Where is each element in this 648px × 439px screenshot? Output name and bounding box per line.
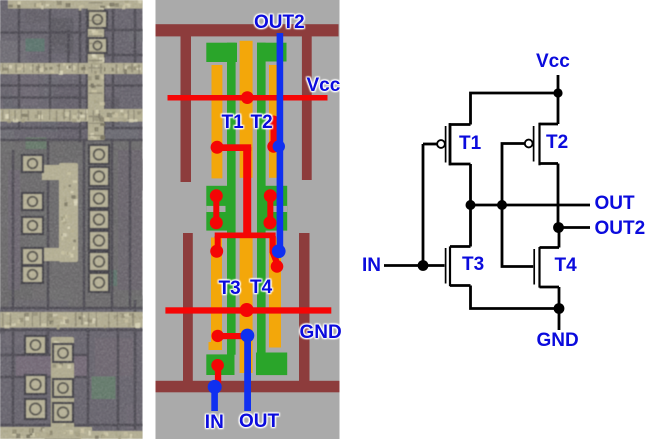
metal cross wire (center): [215, 233, 276, 239]
poly gate column right (T2/T4 gate), upper: [269, 65, 281, 178]
wire T4 source down to GND: [558, 287, 561, 309]
Vcc guard-ring top rail (p+ guard): [156, 24, 339, 36]
wire T4 gate line (OUT node down to T4 gate): [502, 205, 533, 267]
metal wire T1 gate to center poly: [217, 144, 251, 232]
IN contact dot A and bar to OUT tap: [212, 330, 248, 342]
contact pad column left: [0, 0, 1, 1]
transistor label T2 (layout): [251, 113, 273, 132]
bright metal bus bands: [0, 0, 144, 439]
transistor label T3 (schematic): [462, 255, 484, 274]
net label IN (layout): [205, 413, 224, 432]
Vcc contact junction dot: [241, 91, 254, 104]
T2 drain contact dot and stub: [267, 116, 279, 153]
active area: T3 drain diffusion (bottom-left block): [206, 354, 234, 375]
active area: mid-left diffusion block: [206, 186, 235, 231]
metal GND wire: [165, 307, 331, 313]
guard-ring left leg (bottom): [183, 233, 193, 381]
net label Vcc (layout): [307, 76, 341, 95]
centre metal trace (lower): [51, 337, 74, 430]
blue OUT2 vertical wire: [277, 33, 284, 251]
contact pads lower centre: [53, 344, 73, 362]
net label OUT2 (schematic): [595, 219, 646, 238]
green implant patch lower: [92, 377, 116, 400]
wire Vcc stub: [557, 75, 560, 93]
layout background substrate: [156, 0, 340, 439]
active area: right diffusion strip: [257, 43, 266, 355]
contact pads lower left: [25, 336, 46, 354]
net label OUT (schematic): [595, 194, 635, 213]
wire T3 drain up to OUT node: [469, 205, 472, 247]
transistor T1 (p-channel, source to Vcc): [423, 123, 471, 165]
net label OUT (layout): [239, 412, 279, 431]
poly gate column center (OUT poly), upper: [240, 41, 253, 178]
node OUT junction dot (gate feedback): [497, 200, 507, 210]
poly gate column right, lower: [269, 238, 281, 348]
field notch in mid-right diffusion: [273, 206, 287, 212]
metal grid dark gaps: [0, 0, 143, 430]
GND guard-ring bottom rail: [156, 381, 340, 393]
poly foot left lower: [209, 342, 216, 350]
transistor label T1 (layout): [222, 113, 244, 132]
net label OUT2 (layout): [254, 13, 305, 32]
wire T4 drain up to OUT2 node: [558, 228, 561, 248]
active area: T2 source diffusion (top-right block): [257, 43, 287, 62]
node IN junction dot: [418, 260, 429, 271]
contact pad column right: [89, 145, 109, 164]
teal implant patch: [26, 39, 45, 52]
contact chain left (shared source/drain): [210, 189, 223, 229]
wire GND stub: [558, 309, 561, 331]
wire IN gate line (T1 gate to IN node): [422, 144, 425, 266]
labels layer: [0, 0, 648, 1]
band mosaic ticks: [2, 2, 140, 327]
wire T2 drain down to OUT2 node: [557, 164, 560, 228]
node OUT2 junction dot: [553, 222, 564, 233]
active area: T4 drain diffusion (bottom-right block): [256, 353, 287, 376]
T1 gate contact dot: [211, 141, 224, 154]
transistor label T3 (layout): [219, 279, 241, 298]
wire OUT horizontal: [471, 204, 591, 207]
node GND junction dot: [554, 303, 565, 314]
OUT2 junction blob at T2 drain: [273, 140, 285, 152]
transistor T3 (n-channel driver, gate to IN): [423, 246, 471, 286]
transistor T4 (n-channel, gate to OUT): [534, 247, 559, 288]
transistor T2 (p-channel, gate to OUT): [525, 123, 558, 166]
blue OUT vertical wire with top dot: [241, 329, 255, 411]
wire T2 source up to Vcc node: [557, 93, 560, 124]
GND contact junction dot: [240, 303, 254, 317]
net label GND (schematic): [537, 331, 579, 350]
guard-ring right leg (bottom): [299, 233, 310, 381]
centre metal trace (mid): [42, 163, 78, 262]
transistor label T4 (schematic): [555, 256, 577, 275]
wire T1 drain down to OUT node: [469, 164, 472, 205]
teal patch mid-right: [95, 270, 117, 286]
guard-ring left leg (top): [181, 36, 192, 182]
wire IN lead: [384, 264, 423, 267]
transistor label T4 (layout): [250, 278, 272, 297]
active area: mid-right diffusion block: [260, 186, 287, 231]
transistor label T1 (schematic): [459, 134, 481, 153]
contact chain right (shared source/drain): [263, 189, 276, 229]
node Vcc junction dot: [553, 88, 562, 97]
top right pad: [88, 11, 107, 28]
T3 gate contact C with bar down to IN tap: [211, 359, 224, 388]
net label Vcc (schematic): [536, 52, 570, 71]
wire OUT2 horizontal: [559, 226, 591, 229]
field notch in mid-left diffusion: [206, 206, 225, 212]
poly gate column left, lower: [211, 238, 222, 351]
lower oxide panels: [8, 150, 142, 376]
OUT2 wire end dot: [272, 244, 286, 258]
poly gate column left (T1/T3 gate), upper: [212, 65, 223, 178]
cross wire left drop to T3 gate contact: [210, 236, 223, 258]
film grain overlay: [0, 0, 143, 439]
node OUT junction dot (T1/T3): [466, 200, 476, 210]
wire Vcc rail to T1 drain: [471, 93, 559, 125]
wire T3 source down to GND rail: [471, 286, 560, 309]
poly gate column center, lower: [240, 238, 253, 374]
green implant patch upper: [26, 138, 47, 150]
net label IN (schematic): [362, 256, 381, 275]
active area: left diffusion strip: [227, 43, 236, 355]
cross wire right drop to OUT2 tap contact: [271, 236, 284, 273]
transistor label T2 (schematic): [546, 133, 568, 152]
metal Vcc wire: [168, 95, 328, 101]
active area: T1 source diffusion (top-left block): [206, 43, 237, 62]
blue IN vertical wire with top dot: [208, 380, 222, 411]
wire T2 gate line (OUT node up to T2 gate): [502, 144, 524, 206]
die photo background: [0, 0, 161, 439]
net label GND (layout): [300, 323, 342, 342]
guard-ring right leg (top): [302, 36, 312, 180]
